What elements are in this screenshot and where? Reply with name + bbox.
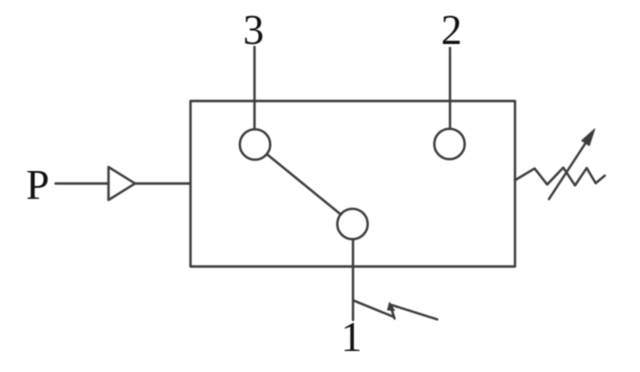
- trip flash arrowhead: [388, 303, 395, 311]
- svg-text:P: P: [26, 163, 49, 209]
- svg-text:2: 2: [441, 8, 462, 54]
- trip flash segment 1: [354, 301, 395, 318]
- adjustment arrowhead: [582, 129, 595, 146]
- wire terminal 1: [352, 240, 354, 321]
- wire terminal 3: [253, 47, 255, 129]
- switch body box: [191, 101, 516, 267]
- wire into box: [135, 182, 190, 184]
- pneumatic input triangle: [109, 167, 136, 200]
- adjustable resistor zigzag: [515, 168, 605, 186]
- wire terminal 2: [449, 48, 451, 129]
- common contact circle terminal 1: [337, 209, 367, 239]
- contact circle terminal 3: [240, 129, 270, 159]
- adjustment arrow shaft: [549, 142, 587, 200]
- svg-text:1: 1: [341, 315, 362, 361]
- wire from P: [56, 182, 109, 184]
- trip flash segment 3: [390, 305, 437, 320]
- contact circle terminal 2: [434, 129, 464, 159]
- switch lever wire: [267, 154, 340, 214]
- trip flash segment 2: [390, 305, 395, 319]
